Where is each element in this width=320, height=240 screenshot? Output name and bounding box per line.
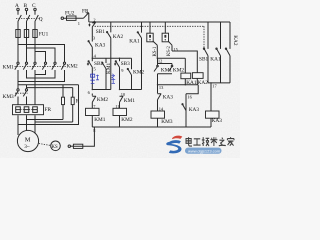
wire resistor bus 2 xyxy=(27,85,73,88)
svg-text:KM3: KM3 xyxy=(3,94,15,100)
svg-text:M: M xyxy=(25,137,31,144)
interlock KM1 NC xyxy=(120,96,136,108)
svg-text:KM2: KM2 xyxy=(133,70,145,76)
svg-text:FR: FR xyxy=(45,107,52,113)
phase terminal A xyxy=(15,3,19,11)
watermark stamp 1 xyxy=(90,73,99,83)
fuse FU2 xyxy=(61,11,83,21)
svg-text:SB3: SB3 xyxy=(121,61,130,67)
coil KA1 xyxy=(181,73,197,86)
thermal relay FR heaters xyxy=(13,105,52,115)
svg-text:3~: 3~ xyxy=(24,144,30,150)
contact KA2 NO xyxy=(107,22,124,90)
svg-text:KA2: KA2 xyxy=(113,34,124,40)
phase terminal B xyxy=(24,3,28,11)
fuse FU1 xyxy=(16,30,49,38)
interlock KM2 NC xyxy=(92,94,108,109)
svg-text:KM1: KM1 xyxy=(94,117,106,123)
selfhold KM1 contact xyxy=(102,58,112,89)
svg-text:FU1: FU1 xyxy=(39,32,49,38)
coil KA3 xyxy=(206,111,223,127)
wire KM3 phase lines xyxy=(18,75,35,105)
speed relay KS xyxy=(39,141,61,151)
relay contact KA1 NO right xyxy=(210,22,221,83)
svg-text:KM3: KM3 xyxy=(161,119,173,125)
watermark stamp 2 xyxy=(111,74,115,84)
wire resistor return 2 xyxy=(35,121,73,123)
linkage dashes KM1 KM2 xyxy=(15,65,67,67)
wire phase B down to KM1 xyxy=(26,38,28,63)
pushbutton SB2 start NO xyxy=(87,58,104,89)
svg-text:KS-2: KS-2 xyxy=(167,45,172,56)
svg-text:KM1: KM1 xyxy=(124,98,136,104)
svg-text:12: 12 xyxy=(158,58,162,63)
pushbutton SB1 NO right xyxy=(199,22,208,83)
coil KM1 xyxy=(86,108,106,127)
watermark url pill xyxy=(185,148,222,154)
wire phase A down to KM1 xyxy=(17,38,19,63)
svg-text:R: R xyxy=(76,99,80,105)
coil KA2 xyxy=(192,73,208,87)
speed switch KS-1 xyxy=(147,22,158,58)
watermark logo xyxy=(166,136,182,154)
selfhold bottom bar branch1 xyxy=(92,89,111,91)
svg-text:KA1: KA1 xyxy=(129,38,140,44)
wire KA coil bottom loop xyxy=(186,85,198,127)
svg-text:Q: Q xyxy=(39,17,43,23)
wire crossover A to KM2 pole3 xyxy=(18,45,65,63)
wire resistor return 1 xyxy=(27,119,64,121)
contactor KM2 main contacts xyxy=(42,62,78,69)
switch Q xyxy=(16,11,43,30)
watermark text xyxy=(186,137,234,146)
selfhold KM2 contact xyxy=(127,58,144,89)
svg-text:KM1: KM1 xyxy=(3,65,15,71)
node 13 bar xyxy=(158,84,199,86)
svg-text:KA3: KA3 xyxy=(212,118,223,124)
svg-text:KA3: KA3 xyxy=(163,95,174,101)
svg-text:KA2: KA2 xyxy=(198,80,209,86)
relay contact KA3 NO right xyxy=(182,104,199,113)
motor M xyxy=(17,130,38,151)
relay contact KA3 NC branch3 xyxy=(158,85,174,111)
svg-text:KA3: KA3 xyxy=(189,107,200,113)
svg-text:KS-1: KS-1 xyxy=(153,46,158,57)
bottom rail wire xyxy=(92,126,211,128)
pushbutton SB3 NO xyxy=(114,58,130,89)
wire crossover C to KM2 pole1 xyxy=(35,52,46,63)
wire U-connector inner xyxy=(35,70,46,75)
pushbutton SB1 stop NC xyxy=(88,22,105,40)
wire phase C down to KM1 xyxy=(34,38,36,63)
svg-text:SB1: SB1 xyxy=(199,57,208,63)
linkage dashes SB1 xyxy=(95,26,204,48)
svg-text:KA3: KA3 xyxy=(95,43,106,49)
svg-text:KA1: KA1 xyxy=(186,80,197,86)
relay contact KA2 NO right xyxy=(225,22,238,83)
thermal relay FR contact xyxy=(78,9,89,26)
resistor R2 xyxy=(71,88,80,122)
contactor KM3 contacts xyxy=(3,89,29,100)
wire U-connector outer xyxy=(18,70,65,82)
coil KM3 xyxy=(151,111,173,127)
svg-text:KA2: KA2 xyxy=(232,35,238,46)
phase terminal C xyxy=(32,3,36,11)
svg-text:1: 1 xyxy=(78,21,80,26)
wire motor leads xyxy=(18,115,35,135)
control supply fuse bottom xyxy=(68,127,94,148)
merge bar right xyxy=(208,83,230,111)
svg-text:KS: KS xyxy=(52,145,58,150)
node 12 bar xyxy=(157,57,185,59)
svg-text:KM2: KM2 xyxy=(173,67,185,73)
speed switch KS-2 xyxy=(162,22,172,56)
wire KA1 coil feed xyxy=(184,58,186,73)
resistor R1 xyxy=(62,85,65,120)
wire resistor bus 1 xyxy=(18,82,79,85)
selfhold bottom bar branch2 xyxy=(120,89,142,91)
svg-text:KM2: KM2 xyxy=(121,117,133,123)
svg-text:KM2: KM2 xyxy=(67,64,79,70)
svg-text:KM2: KM2 xyxy=(97,97,109,103)
svg-text:KM1: KM1 xyxy=(161,67,173,73)
wire crossover B to KM2 pole2 xyxy=(27,48,56,62)
node 4 bar xyxy=(92,57,131,59)
wire bypass return xyxy=(18,85,79,125)
top rail wire xyxy=(89,21,230,23)
svg-text:KA1: KA1 xyxy=(210,57,221,63)
contactor KM1 main contacts xyxy=(3,62,37,70)
svg-text:www.dgjs123.com: www.dgjs123.com xyxy=(188,148,221,153)
parallel contacts KM1 KM2 branch3 xyxy=(154,58,184,85)
contact KA1 NO xyxy=(129,22,141,90)
relay contact KA3 NO branch1 xyxy=(88,40,106,58)
svg-text:SB1: SB1 xyxy=(96,29,105,35)
wire KS-2 to KA2 coil xyxy=(172,51,197,73)
wire U-connector middle xyxy=(27,70,56,78)
coil KM2 xyxy=(113,108,133,127)
